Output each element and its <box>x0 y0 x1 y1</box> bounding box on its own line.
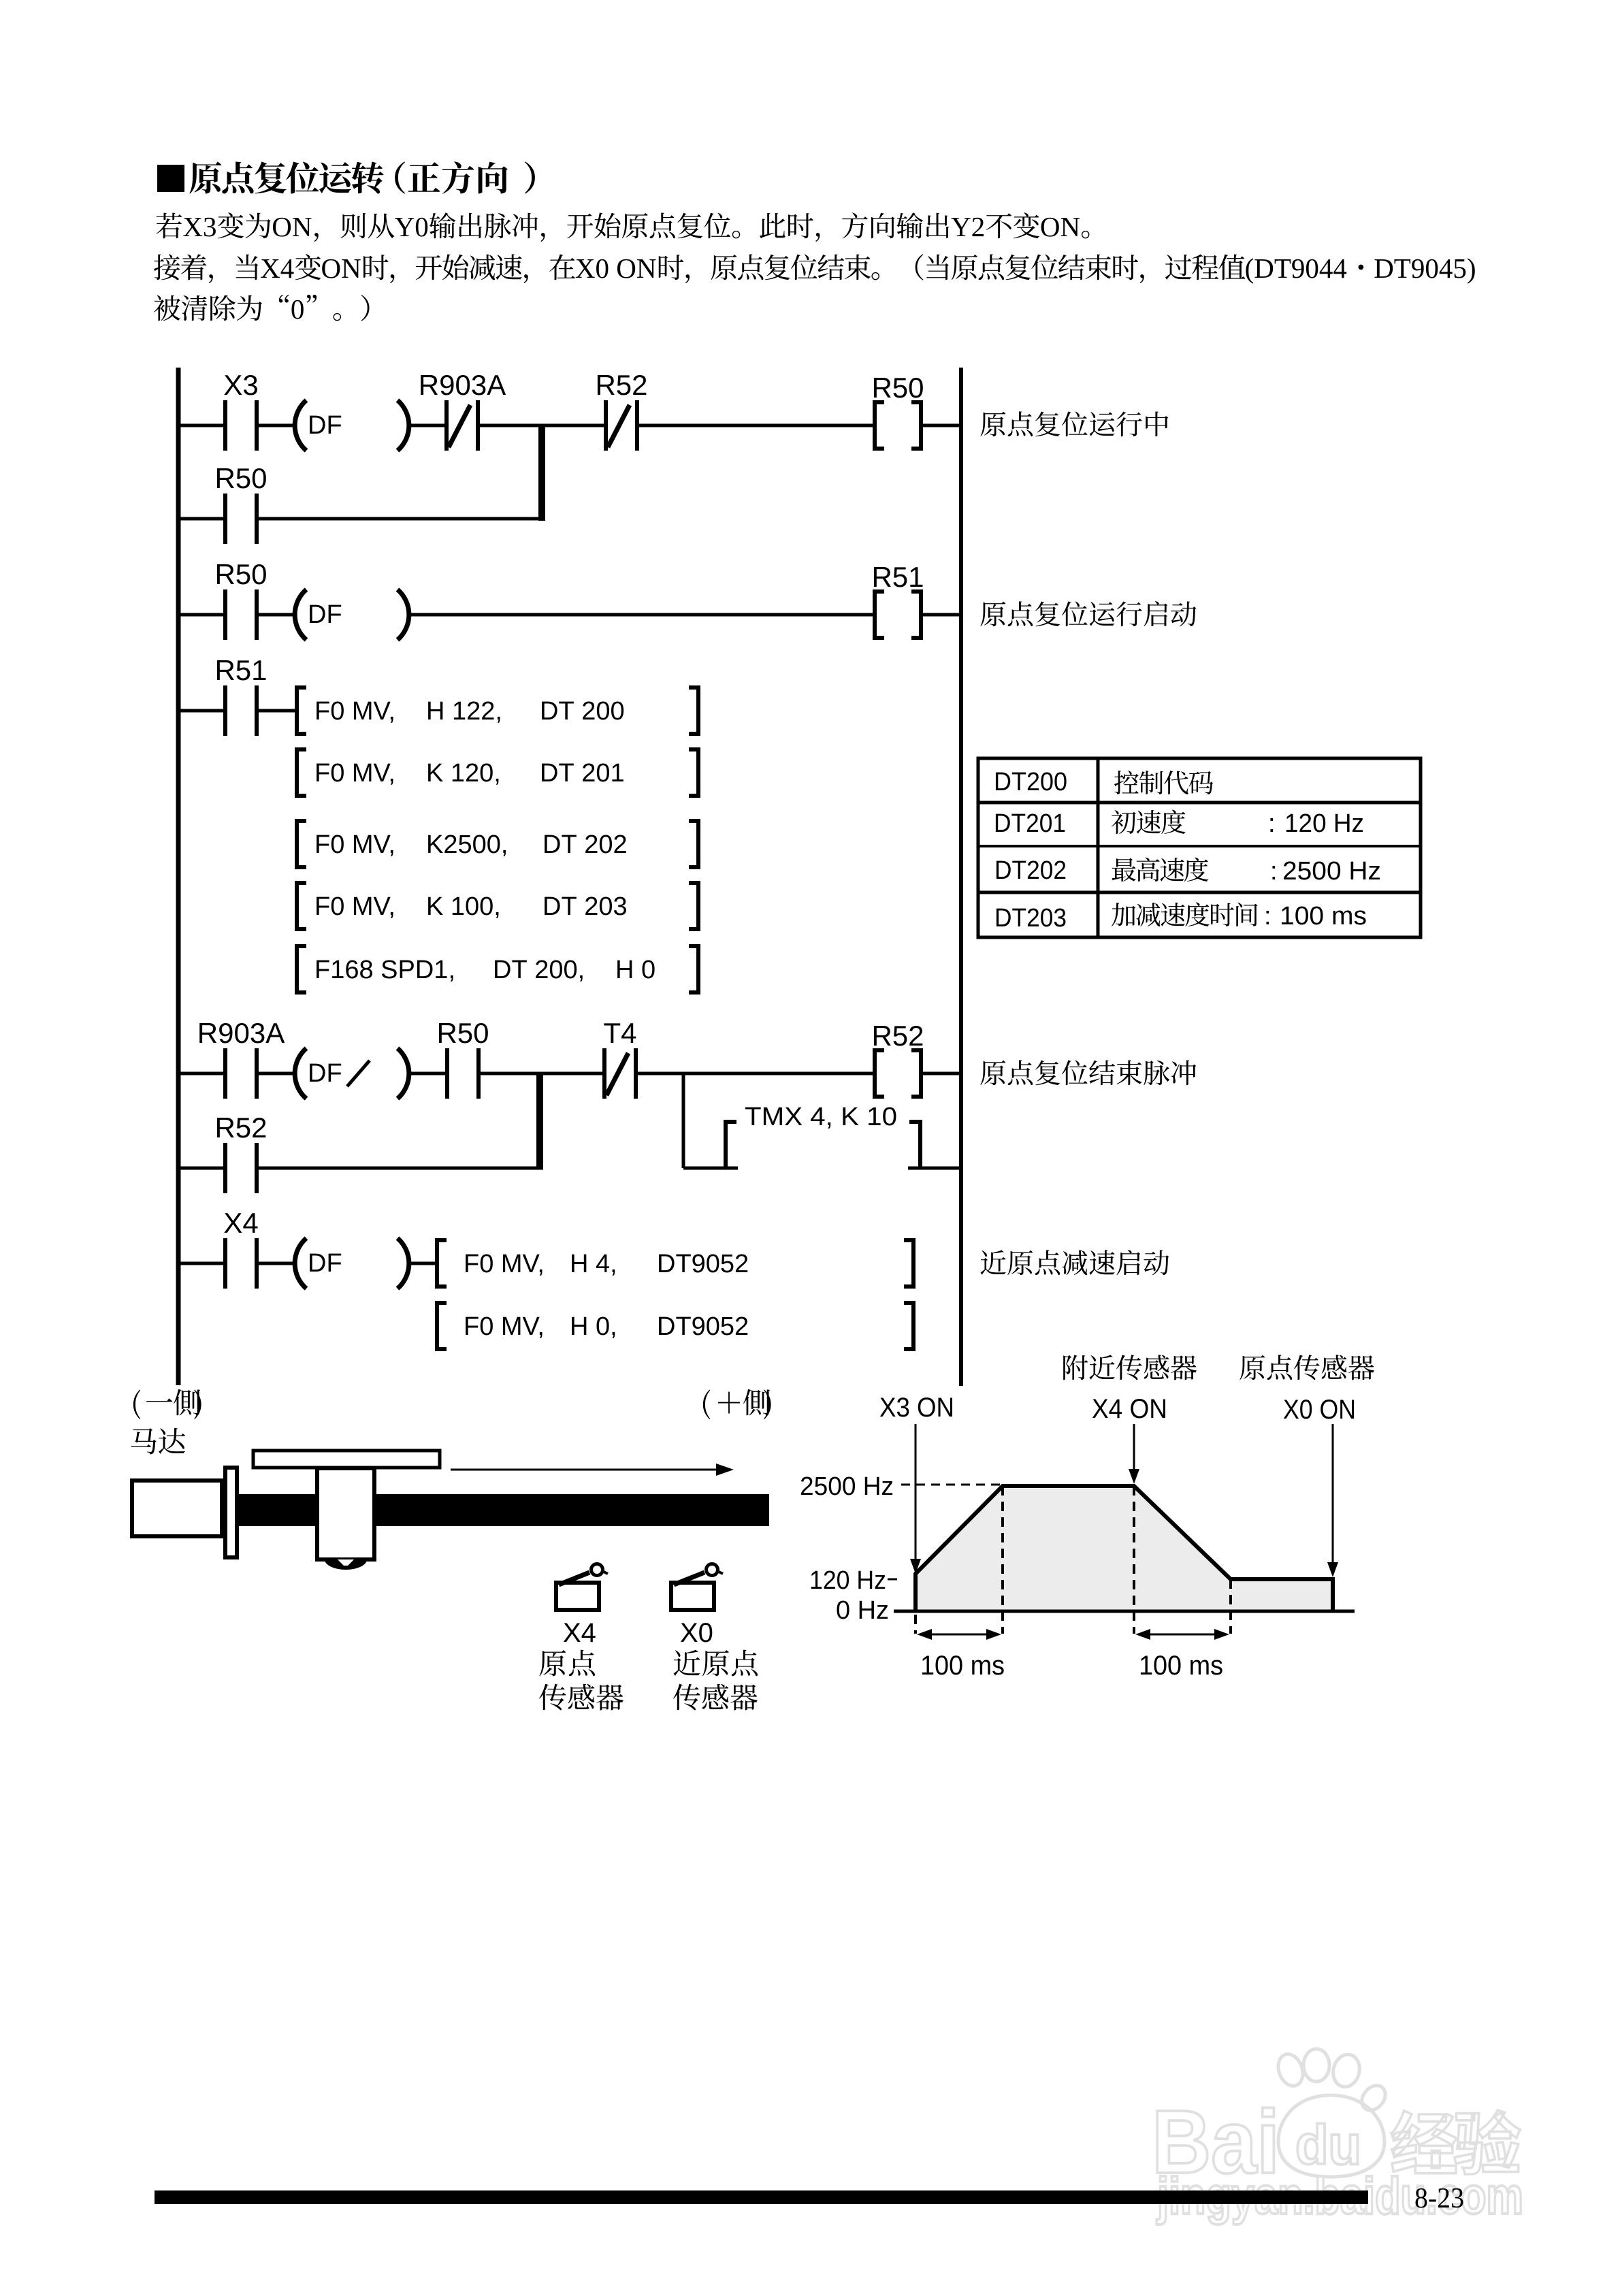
data table DT200-DT203 <box>977 757 1423 939</box>
svg-text:F0 MV,: F0 MV, <box>464 1250 545 1278</box>
speed profile fill <box>916 1486 1333 1611</box>
svg-text:R50: R50 <box>871 372 924 404</box>
DF pulse block <box>295 1238 409 1289</box>
wire rung2: rail to R50 <box>178 613 225 617</box>
svg-text:(DT9044: (DT9044 <box>1245 253 1347 284</box>
motor body <box>132 1481 222 1536</box>
svg-text:R52: R52 <box>595 369 647 401</box>
svg-text:DT202: DT202 <box>994 856 1067 885</box>
svg-text:K 120,: K 120, <box>426 759 501 788</box>
wire coil R52 to right rail <box>921 1072 961 1076</box>
svg-text:DT203: DT203 <box>994 904 1067 933</box>
svg-text:X4 ON: X4 ON <box>1092 1394 1167 1424</box>
label (＋側) <box>703 1390 710 1419</box>
coil R51 <box>871 561 924 640</box>
svg-text:F168 SPD1,: F168 SPD1, <box>314 956 455 984</box>
svg-text:Y0: Y0 <box>395 211 429 242</box>
svg-text:K2500,: K2500, <box>426 830 508 859</box>
svg-text:X3 ON: X3 ON <box>879 1393 954 1423</box>
svg-text:X4: X4 <box>563 1618 596 1648</box>
svg-text:F0 MV,: F0 MV, <box>314 697 395 726</box>
wire coil R51 to right rail <box>921 613 961 617</box>
title 原点复位运转（正方向） <box>189 162 221 194</box>
label 原点复位运行中 <box>980 412 1005 436</box>
contact R903A <box>197 1017 285 1099</box>
svg-text:0: 0 <box>291 293 305 325</box>
svg-text:X0 ON: X0 ON <box>575 253 657 284</box>
svg-text:X0 ON: X0 ON <box>1283 1395 1356 1425</box>
svg-text:DT 200,: DT 200, <box>493 956 585 984</box>
svg-text:R50: R50 <box>436 1017 489 1049</box>
speed profile outline <box>916 1486 1333 1611</box>
svg-text:ON: ON <box>321 253 361 284</box>
label (一側) <box>133 1390 140 1419</box>
carriage bottom notch <box>325 1559 367 1570</box>
svg-text:F0 MV,: F0 MV, <box>314 830 395 859</box>
instruction block [F0 MV H4 DT9052] <box>435 1238 916 1289</box>
label 近原点 <box>674 1650 700 1676</box>
svg-text:DF: DF <box>308 1249 342 1278</box>
instruction block [F0 MV H122 DT200] <box>295 685 700 736</box>
svg-text:F0 MV,: F0 MV, <box>314 892 395 921</box>
svg-text:DT9045): DT9045) <box>1374 253 1476 284</box>
svg-text:H 0: H 0 <box>615 956 655 984</box>
svg-text:R52: R52 <box>871 1020 924 1052</box>
slider top plate <box>253 1451 440 1468</box>
wire X3 to DF <box>259 424 294 427</box>
label 原点复位运行启动 <box>980 602 1005 626</box>
wire DF to R903A <box>408 424 447 427</box>
footer rule bar <box>155 2190 1368 2204</box>
svg-text:120 Hz: 120 Hz <box>809 1566 886 1595</box>
Baidu Jingyan watermark <box>1152 2049 1390 2192</box>
svg-text:2500 Hz: 2500 Hz <box>800 1472 894 1501</box>
wire R50 to T4 (through branch junction) <box>481 1072 604 1076</box>
motor flange <box>225 1468 237 1557</box>
svg-text:DT9052: DT9052 <box>657 1250 749 1278</box>
body paragraph <box>156 213 182 239</box>
wire OR-branch row: rail to R52 to junction <box>178 1167 225 1170</box>
contact R50 <box>214 462 267 544</box>
graph time axis <box>894 1610 1355 1613</box>
dashed marker accel end <box>1001 1486 1004 1634</box>
arrow X0 ON <box>1332 1424 1334 1566</box>
svg-text:DT200: DT200 <box>994 768 1067 796</box>
wire rung4: rail to R903A <box>178 1072 225 1076</box>
svg-text:100 ms: 100 ms <box>1139 1651 1223 1681</box>
wire rung1: rail to X3 <box>178 424 225 427</box>
instruction block [F168 SPD1 DT200 H0] <box>295 944 700 995</box>
span arrow decel 100ms <box>1139 1634 1225 1636</box>
label 附近传感器 <box>1063 1355 1088 1380</box>
label 原点传感器 <box>1240 1355 1265 1380</box>
svg-text:R50: R50 <box>214 462 267 494</box>
svg-text:R903A: R903A <box>197 1017 285 1049</box>
wire coil R50 to right rail <box>921 424 961 427</box>
left bus rail <box>176 368 181 1385</box>
instruction block [F0 MV H0 DT9052] <box>435 1301 916 1351</box>
span arrow accel 100ms <box>921 1634 997 1636</box>
timer TMX 4, K 10 <box>683 1103 961 1170</box>
contact X4 <box>223 1207 259 1289</box>
junction: branch drop after R903A <box>538 424 545 521</box>
travel direction arrow <box>451 1469 723 1471</box>
svg-text:X0: X0 <box>680 1618 713 1648</box>
svg-text:100 ms: 100 ms <box>920 1651 1005 1681</box>
svg-text:T4: T4 <box>603 1017 636 1049</box>
svg-text:H 0,: H 0, <box>570 1312 617 1341</box>
dashed marker start <box>914 1615 917 1634</box>
svg-text:H 4,: H 4, <box>570 1250 617 1278</box>
svg-text:DT 201: DT 201 <box>540 759 625 788</box>
svg-text:DT9052: DT9052 <box>657 1312 749 1341</box>
wire R51 to F0 block <box>259 709 297 713</box>
svg-text:F0 MV,: F0 MV, <box>464 1312 545 1341</box>
svg-text:X3: X3 <box>182 211 216 242</box>
contact R51 <box>214 654 267 736</box>
svg-text:R52: R52 <box>214 1112 267 1144</box>
svg-text:DF: DF <box>308 411 342 440</box>
svg-text:X3: X3 <box>223 369 258 401</box>
wire DF to R50 <box>408 1072 447 1076</box>
label 原点复位结束脉冲 <box>980 1061 1005 1085</box>
svg-text:DF: DF <box>308 600 342 629</box>
contact X3 <box>223 369 259 451</box>
DF pulse block (falling) <box>295 1048 409 1099</box>
svg-text:R903A: R903A <box>419 369 506 401</box>
wire DF to coil R51 <box>408 613 877 617</box>
arrow X4 ON <box>1133 1424 1135 1472</box>
svg-text:DT 203: DT 203 <box>542 892 628 921</box>
svg-text::: : <box>1264 902 1271 931</box>
svg-text:100 ms: 100 ms <box>1280 902 1367 931</box>
dashed marker decel start <box>1133 1486 1135 1634</box>
svg-text:DF: DF <box>308 1059 342 1088</box>
instruction block [F0 MV K120 DT201] <box>295 747 700 798</box>
contact R52 <box>214 1112 267 1193</box>
svg-text:ON: ON <box>1040 211 1080 242</box>
svg-text:2500 Hz: 2500 Hz <box>1282 857 1381 886</box>
contact T4 (NC) <box>602 1017 638 1099</box>
label 近原点减速启动 <box>980 1250 1005 1274</box>
svg-text:DT201: DT201 <box>994 809 1066 838</box>
wire R903A to R52 (through branch junction) <box>480 424 606 427</box>
instruction block [F0 MV K100 DT203] <box>295 881 700 931</box>
wire DF to F0 block <box>408 1262 437 1265</box>
svg-text:R51: R51 <box>871 561 924 593</box>
arrow X3 ON <box>915 1424 917 1562</box>
limit switch X4 (origin sensor) <box>556 1564 608 1611</box>
label 传感器 (X4) <box>539 1684 566 1711</box>
coil R50 <box>871 372 924 451</box>
svg-text:F0 MV,: F0 MV, <box>314 759 395 788</box>
dashed marker decel end <box>1229 1579 1232 1634</box>
svg-text:X4: X4 <box>260 253 294 284</box>
svg-text::: : <box>1268 809 1276 838</box>
wire R52 to coil R50 <box>639 424 877 427</box>
wire rung5: rail to X4 <box>178 1262 225 1265</box>
svg-text:K 100,: K 100, <box>426 892 501 921</box>
svg-text:H 122,: H 122, <box>426 697 502 726</box>
instruction block [F0 MV K2500 DT202] <box>295 819 700 869</box>
svg-text:R50: R50 <box>214 558 267 590</box>
label 传感器 (X0) <box>673 1684 700 1711</box>
right bus rail <box>959 368 963 1386</box>
junction: branch drop after R50 <box>536 1072 543 1169</box>
svg-text:ON: ON <box>272 211 312 242</box>
dashed level 2500Hz <box>901 1484 1001 1486</box>
contact R50 <box>436 1017 489 1099</box>
carriage <box>317 1468 374 1559</box>
svg-text:DT 200: DT 200 <box>540 697 625 726</box>
limit switch X0 (near-origin sensor) <box>671 1564 723 1611</box>
junction: drop to TMX timer after T4 <box>682 1073 685 1168</box>
contact R903A (NC) <box>419 369 506 451</box>
DF pulse block <box>295 589 409 640</box>
wire OR-branch row: rail to R50 to junction <box>178 517 225 521</box>
svg-text:X4: X4 <box>223 1207 258 1239</box>
contact R50 <box>214 558 267 640</box>
coil R52 <box>871 1020 924 1099</box>
svg-text:DT 202: DT 202 <box>542 830 628 859</box>
section marker (black square) <box>157 165 184 192</box>
svg-text:Y2: Y2 <box>951 211 985 242</box>
ball screw shaft <box>238 1494 769 1526</box>
label 马达 <box>131 1428 156 1454</box>
contact R52 (NC) <box>595 369 647 451</box>
svg-text:120 Hz: 120 Hz <box>1284 809 1364 838</box>
label 原点 <box>539 1650 566 1676</box>
wire X4 to DF <box>259 1262 294 1265</box>
wire T4 to coil R52 (through TMX junction) <box>637 1072 877 1076</box>
DF pulse block <box>295 400 409 451</box>
svg-text:TMX 4, K 10: TMX 4, K 10 <box>745 1103 897 1131</box>
wire R50 to DF <box>259 613 294 617</box>
svg-text:R51: R51 <box>214 654 267 686</box>
svg-text::: : <box>1270 857 1278 886</box>
svg-text:8-23: 8-23 <box>1414 2183 1464 2214</box>
svg-text:0 Hz: 0 Hz <box>836 1596 889 1625</box>
wire R903A to DF <box>259 1072 294 1076</box>
wire rung3: rail to R51 <box>178 709 225 713</box>
